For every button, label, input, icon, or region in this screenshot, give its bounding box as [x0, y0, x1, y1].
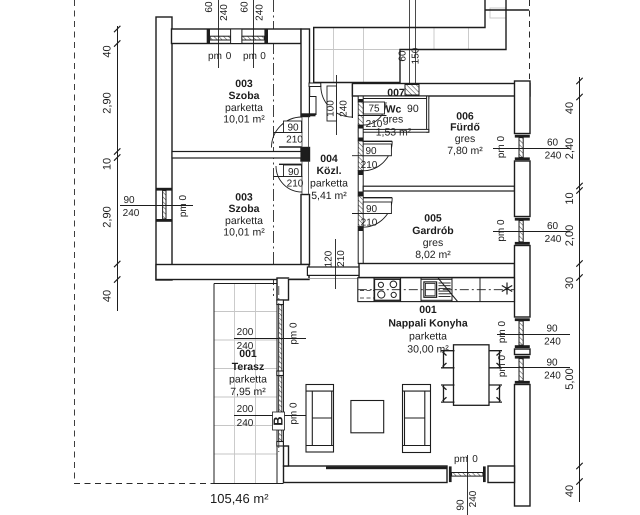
svg-text:Fürdő: Fürdő: [450, 122, 480, 134]
svg-text:200: 200: [237, 327, 254, 338]
svg-text:210: 210: [286, 135, 303, 146]
svg-text:105,46 m²: 105,46 m²: [210, 491, 269, 506]
svg-text:Szoba: Szoba: [229, 90, 260, 102]
svg-text:150: 150: [411, 47, 422, 64]
svg-text:240: 240: [123, 208, 140, 219]
svg-text:005: 005: [424, 213, 442, 225]
svg-text:90: 90: [366, 204, 378, 215]
svg-text:007: 007: [387, 87, 405, 99]
svg-text:210: 210: [361, 160, 378, 171]
svg-text:7,95 m²: 7,95 m²: [230, 386, 266, 398]
svg-text:2,90: 2,90: [102, 206, 114, 227]
svg-text:7,80 m²: 7,80 m²: [447, 145, 483, 157]
svg-text:gres: gres: [423, 237, 443, 249]
svg-text:parketta: parketta: [225, 215, 263, 227]
svg-text:2,90: 2,90: [102, 92, 114, 113]
svg-text:pm 0: pm 0: [497, 320, 508, 343]
svg-text:0: 0: [472, 454, 478, 465]
svg-text:30: 30: [564, 277, 576, 289]
svg-text:200: 200: [237, 404, 254, 415]
svg-text:parketta: parketta: [310, 178, 348, 190]
svg-text:Terasz: Terasz: [232, 361, 265, 373]
svg-text:2,40: 2,40: [564, 138, 576, 159]
svg-text:210: 210: [361, 217, 378, 228]
svg-text:90: 90: [546, 324, 558, 335]
svg-text:Nappali Konyha: Nappali Konyha: [388, 318, 468, 330]
svg-text:30,00 m²: 30,00 m²: [407, 344, 449, 356]
svg-text:10,01 m²: 10,01 m²: [223, 227, 265, 239]
svg-text:40: 40: [564, 102, 576, 114]
svg-text:40: 40: [564, 485, 576, 497]
svg-text:90: 90: [288, 167, 300, 178]
svg-text:10: 10: [564, 192, 576, 204]
svg-text:240: 240: [545, 151, 562, 162]
svg-text:240: 240: [339, 100, 350, 117]
svg-text:gres: gres: [455, 133, 475, 145]
svg-text:210: 210: [336, 250, 347, 267]
svg-text:0: 0: [260, 51, 266, 62]
svg-text:B: B: [271, 416, 286, 425]
svg-text:0: 0: [226, 51, 232, 62]
svg-text:pm 0: pm 0: [496, 135, 507, 158]
svg-text:Gardrób: Gardrób: [412, 225, 453, 237]
svg-text:60: 60: [204, 1, 215, 13]
svg-text:240: 240: [237, 341, 254, 352]
svg-text:pm 0: pm 0: [289, 402, 300, 425]
svg-text:pm: pm: [243, 51, 257, 62]
svg-text:gres: gres: [383, 114, 403, 126]
svg-text:60: 60: [547, 138, 559, 149]
svg-text:60: 60: [547, 221, 559, 232]
svg-text:60: 60: [240, 1, 251, 13]
svg-text:Szoba: Szoba: [229, 203, 260, 215]
svg-text:parketta: parketta: [409, 331, 447, 343]
svg-text:parketta: parketta: [229, 374, 267, 386]
svg-text:pm: pm: [454, 454, 468, 465]
svg-text:40: 40: [102, 45, 114, 57]
svg-text:004: 004: [320, 153, 338, 165]
svg-text:240: 240: [468, 490, 479, 507]
svg-text:90: 90: [407, 103, 419, 115]
svg-text:pm 0: pm 0: [497, 354, 508, 377]
svg-text:120: 120: [324, 250, 335, 267]
svg-text:40: 40: [102, 290, 114, 302]
svg-text:pm 0: pm 0: [178, 194, 189, 217]
svg-text:pm 0: pm 0: [496, 219, 507, 242]
svg-text:75: 75: [368, 104, 380, 115]
svg-text:90: 90: [365, 146, 377, 157]
svg-text:60: 60: [398, 50, 409, 62]
svg-text:10,01 m²: 10,01 m²: [223, 114, 265, 126]
svg-text:210: 210: [287, 178, 304, 189]
svg-text:240: 240: [544, 337, 561, 348]
svg-text:100: 100: [326, 100, 337, 117]
svg-text:240: 240: [544, 371, 561, 382]
svg-text:90: 90: [287, 123, 299, 134]
svg-text:001: 001: [419, 304, 437, 316]
svg-text:2,00: 2,00: [564, 225, 576, 246]
svg-text:240: 240: [219, 4, 230, 21]
svg-text:240: 240: [237, 418, 254, 429]
svg-text:240: 240: [255, 4, 266, 21]
svg-text:210: 210: [366, 119, 383, 130]
svg-text:8,02 m²: 8,02 m²: [415, 249, 451, 261]
svg-text:pm: pm: [208, 51, 222, 62]
svg-text:240: 240: [545, 234, 562, 245]
svg-text:90: 90: [456, 499, 467, 511]
svg-text:003: 003: [235, 192, 253, 204]
svg-text:parketta: parketta: [225, 102, 263, 114]
svg-text:90: 90: [123, 195, 135, 206]
svg-text:5,00: 5,00: [564, 368, 576, 389]
svg-text:10: 10: [102, 158, 114, 170]
svg-text:5,41 m²: 5,41 m²: [311, 190, 347, 202]
svg-text:Közl.: Közl.: [316, 165, 341, 177]
svg-text:pm 0: pm 0: [289, 322, 300, 345]
svg-text:003: 003: [235, 78, 253, 90]
svg-text:90: 90: [546, 358, 558, 369]
